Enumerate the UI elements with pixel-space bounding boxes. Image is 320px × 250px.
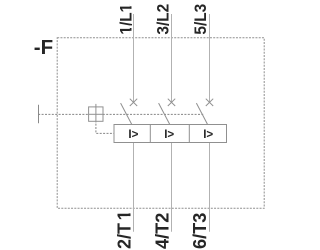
mechanism square cross vertical <box>95 104 97 123</box>
trip linkage dashed <box>96 124 114 134</box>
svg-text:I>: I> <box>203 128 213 141</box>
mechanical coupling dashed line <box>38 113 203 115</box>
pole 2 breaker cross <box>168 99 175 106</box>
pole 1 contact blade <box>121 103 132 124</box>
pole 3 breaker cross <box>206 99 213 106</box>
svg-text:2/T: 2/T <box>114 223 134 249</box>
pole 1 bottom line <box>133 142 135 232</box>
mechanism square <box>89 107 103 121</box>
svg-text:3/L2: 3/L2 <box>153 4 172 35</box>
pole 3 contact blade <box>196 103 207 124</box>
mechanism square cross horizontal <box>89 113 103 115</box>
svg-text:5/L3: 5/L3 <box>191 4 210 35</box>
pole 3 top line <box>209 14 211 103</box>
font patch: remove base serifs of digit 1 glyphs <box>127 3 132 220</box>
pole 2 top line <box>171 14 173 103</box>
pole 2 contact blade <box>159 103 170 124</box>
component outline (dashed box) <box>57 38 264 209</box>
pole 3 bottom line <box>209 142 211 232</box>
pole 1 top line <box>133 14 135 103</box>
svg-text:I>: I> <box>164 128 174 141</box>
svg-text:I>: I> <box>128 128 138 141</box>
box divider 1 <box>149 125 151 143</box>
overload release box <box>114 125 227 143</box>
svg-text:-F: -F <box>34 36 53 59</box>
pole 1 breaker cross <box>130 99 137 106</box>
svg-text:6/T3: 6/T3 <box>190 213 210 249</box>
handle bar <box>38 105 40 123</box>
svg-text:1: 1 <box>114 210 134 220</box>
svg-text:4/T2: 4/T2 <box>152 213 172 249</box>
pole 2 bottom line <box>171 142 173 232</box>
box divider 2 <box>188 125 190 143</box>
svg-text:1/L1: 1/L1 <box>117 4 136 35</box>
